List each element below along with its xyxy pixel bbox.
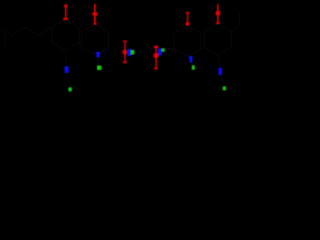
wire ring junction bond	[79, 43, 81, 48]
fragment B nitrogen label	[158, 48, 161, 55]
wire right ring junction bond	[201, 47, 204, 49]
wire Cl4 bond	[221, 75, 225, 86]
wire left chain	[5, 27, 52, 46]
wire N4 bond	[218, 55, 221, 67]
wire right ring D	[204, 24, 231, 55]
carbonyl O3 of right molecule	[186, 12, 190, 26]
chlorine Cl1 of left molecule	[97, 66, 101, 71]
chlorine Cl2 of left molecule	[68, 87, 71, 91]
carbonyl O1 of left molecule	[63, 4, 68, 20]
wire Cl1 bond	[98, 58, 99, 65]
wire Cl3 bond	[188, 56, 192, 65]
chlorine Cl4 of right molecule	[223, 86, 226, 90]
nitrogen N2 of left molecule	[96, 52, 101, 57]
nitrogen N1 of left molecule	[65, 66, 69, 73]
wire right ring C	[174, 26, 201, 57]
carbonyl O2 of left molecule	[92, 4, 97, 25]
nitrogen N4 of right molecule	[218, 68, 222, 75]
wire left ring A	[81, 25, 108, 55]
nitrogen N3 of right molecule	[189, 56, 193, 62]
wire right top chain	[231, 13, 239, 32]
fragment A chlorine label	[131, 50, 135, 55]
chlorine Cl3 of right molecule	[192, 65, 195, 69]
sulfate fragment B: top O cap	[154, 46, 158, 70]
wire left ring B	[52, 20, 79, 51]
carbonyl O4 of right molecule	[216, 4, 220, 24]
fragment B chlorine label	[162, 48, 165, 52]
wire N1 bond	[65, 50, 68, 66]
fragment A nitrogen label	[128, 49, 131, 56]
wire Cl2 bond	[67, 73, 70, 87]
sulfate fragment A: top O cap	[123, 41, 127, 64]
